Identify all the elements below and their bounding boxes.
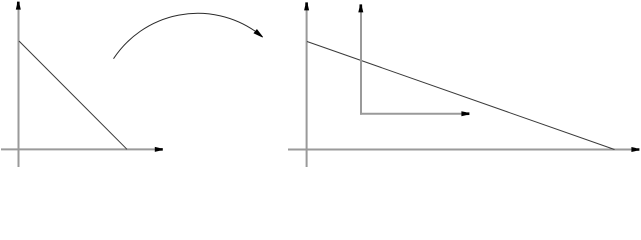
left plot x-axis (1, 147, 162, 151)
left y-axis arrowhead (16, 2, 20, 9)
inner y-axis arrowhead (359, 5, 363, 12)
curved arrow (left plot to right plot) (114, 13, 263, 58)
inner y-axis (right plot) (359, 5, 363, 115)
left plot diagonal line (19, 41, 127, 149)
right x-axis arrowhead (632, 148, 639, 152)
right plot diagonal line (307, 42, 615, 150)
inner x-axis (right plot) (360, 112, 469, 116)
right plot y-axis (305, 3, 309, 167)
right y-axis arrowhead (305, 3, 309, 10)
left x-axis arrowhead (155, 147, 162, 151)
right plot x-axis (288, 148, 639, 152)
curved arrow arrowhead (254, 30, 263, 37)
left plot y-axis (16, 2, 20, 167)
inner x-axis arrowhead (462, 112, 469, 116)
